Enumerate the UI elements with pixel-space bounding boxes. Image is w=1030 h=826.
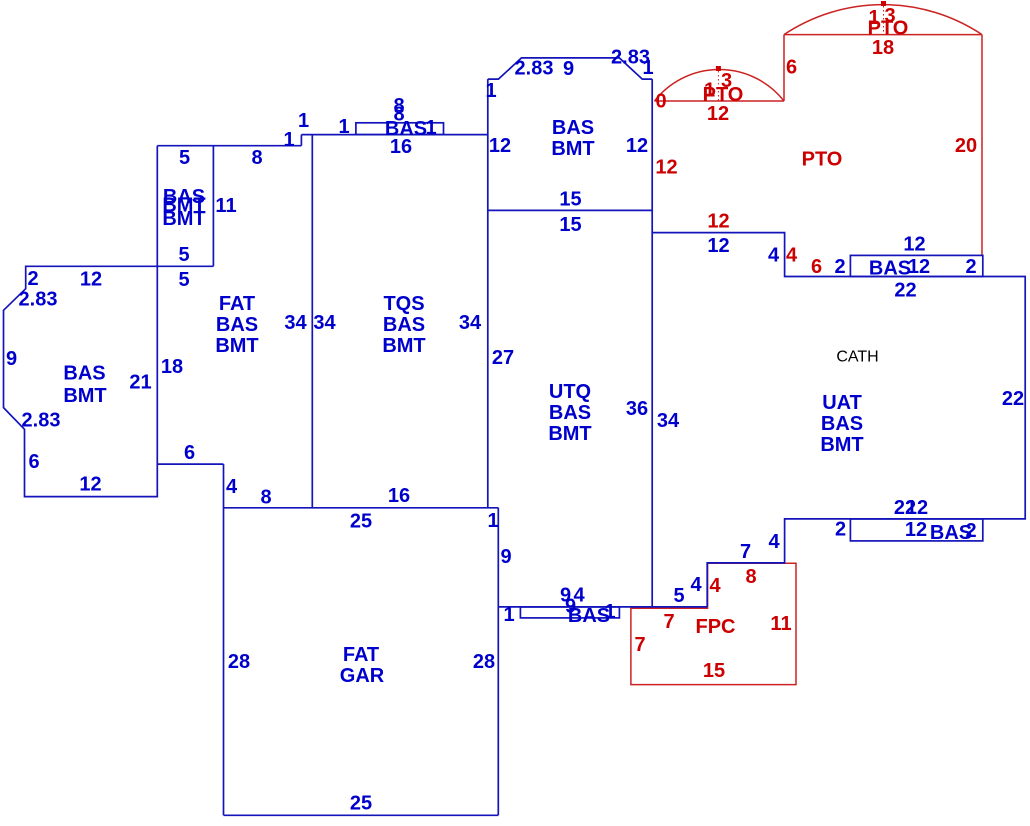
svg-text:2: 2 [835, 519, 846, 541]
svg-text:11: 11 [215, 195, 236, 217]
FAT GAR bottom 25 [224, 814, 499, 816]
svg-text:4: 4 [226, 476, 238, 498]
svg-text:8: 8 [251, 147, 262, 169]
small PTO dotted drop line [717, 71, 719, 101]
svg-text:FAT: FAT [219, 293, 255, 315]
svg-text:5: 5 [179, 147, 190, 169]
svg-text:FAT: FAT [343, 644, 379, 666]
svg-text:2.83: 2.83 [19, 289, 58, 311]
15 line (BASBMT bottom / UTQ top) [488, 209, 652, 211]
svg-text:12: 12 [906, 497, 928, 519]
svg-text:6: 6 [28, 451, 39, 473]
svg-text:9: 9 [500, 546, 511, 568]
right upper BAS strip 12x2 [850, 255, 982, 276]
long wall x=652 (BASBMT/UTQ right, UAT left) [651, 79, 653, 607]
svg-text:CATH: CATH [836, 349, 878, 366]
PTO step wall 6 [783, 35, 785, 101]
svg-text:20: 20 [955, 135, 977, 157]
svg-text:BMT: BMT [382, 335, 425, 357]
svg-text:12: 12 [707, 103, 729, 125]
svg-text:12: 12 [908, 256, 930, 278]
svg-text:15: 15 [703, 660, 725, 682]
svg-text:4: 4 [768, 245, 780, 267]
big PTO peak marker [881, 1, 886, 6]
long wall x=487.8 (TQS right / BASBMT left) [487, 79, 489, 508]
svg-text:1: 1 [283, 129, 294, 151]
svg-text:BAS: BAS [216, 314, 258, 336]
svg-text:FPC: FPC [696, 616, 736, 638]
UAT outline top/right/bottom [652, 233, 1025, 607]
svg-text:2: 2 [27, 268, 38, 290]
small rect left wall / shared vertical [156, 146, 158, 267]
svg-text:BMT: BMT [551, 138, 594, 160]
svg-text:1: 1 [425, 117, 436, 139]
svg-text:12: 12 [655, 157, 677, 179]
svg-text:34: 34 [313, 312, 336, 334]
svg-text:34: 34 [459, 312, 482, 334]
svg-text:TQS: TQS [383, 293, 424, 315]
svg-text:0: 0 [655, 91, 666, 113]
svg-text:1: 1 [485, 80, 496, 102]
svg-text:12: 12 [79, 474, 101, 496]
svg-text:16: 16 [390, 136, 412, 158]
big PTO arc [784, 5, 982, 35]
svg-text:25: 25 [350, 793, 372, 815]
small PTO peak marker [716, 66, 721, 71]
svg-text:15: 15 [559, 214, 581, 236]
svg-text:36: 36 [626, 398, 648, 420]
svg-text:8: 8 [745, 566, 756, 588]
top BAS strip 8x1 [356, 123, 444, 135]
small rect bottom (octagon top extension) [157, 265, 213, 267]
svg-text:BMT: BMT [548, 423, 591, 445]
svg-text:BMT: BMT [63, 385, 106, 407]
svg-text:GAR: GAR [340, 665, 385, 687]
svg-text:2: 2 [965, 520, 976, 542]
svg-text:12: 12 [905, 519, 927, 541]
bottom BAS strip 9x1 [520, 607, 619, 618]
svg-text:16: 16 [388, 485, 410, 507]
big PTO dotted drop line [883, 6, 885, 35]
right lower BAS strip 12x2 [850, 519, 982, 541]
left wall x=223.5 (4 + FAT GAR left 28) [223, 464, 225, 815]
svg-text:BMT: BMT [215, 335, 258, 357]
svg-text:28: 28 [473, 651, 495, 673]
svg-text:2: 2 [834, 256, 845, 278]
left BAS BMT octagon [4, 266, 158, 496]
TQS left wall (34) [311, 135, 313, 508]
svg-text:8: 8 [260, 487, 271, 509]
svg-text:11: 11 [770, 613, 791, 635]
svg-text:12: 12 [707, 211, 729, 233]
svg-text:12: 12 [489, 135, 511, 157]
svg-text:6: 6 [786, 57, 797, 79]
svg-text:12: 12 [626, 135, 648, 157]
svg-text:4: 4 [709, 575, 721, 597]
svg-text:7: 7 [634, 634, 645, 656]
svg-text:PTO: PTO [802, 149, 843, 171]
FAT GAR top edge 25 [224, 507, 499, 509]
svg-text:12: 12 [903, 234, 925, 256]
svg-text:27: 27 [492, 347, 514, 369]
svg-text:12: 12 [80, 269, 102, 291]
svg-text:7: 7 [740, 541, 751, 563]
svg-text:2: 2 [965, 256, 976, 278]
svg-text:4: 4 [786, 245, 798, 267]
svg-text:7: 7 [663, 611, 674, 633]
svg-text:6: 6 [184, 442, 195, 464]
top BAS BMT chamfered top [488, 58, 652, 79]
svg-text:BAS: BAS [552, 117, 594, 139]
svg-text:6: 6 [811, 256, 822, 278]
svg-text:1: 1 [604, 601, 615, 623]
svg-text:34: 34 [657, 410, 680, 432]
FAT top edge at y=145.7 [157, 145, 301, 147]
svg-text:21: 21 [129, 372, 151, 394]
svg-text:2.83: 2.83 [22, 410, 61, 432]
small rect right wall (11) [212, 146, 214, 267]
svg-text:28: 28 [228, 651, 250, 673]
1ft step up [300, 135, 302, 146]
svg-text:BAS: BAS [63, 363, 105, 385]
svg-text:18: 18 [872, 37, 894, 59]
TQS top edge y=134.6 [301, 134, 487, 136]
svg-text:BMT: BMT [162, 208, 205, 230]
PTO right wall 20 [981, 35, 983, 256]
svg-text:5: 5 [178, 244, 189, 266]
patio FPC outline (red) [631, 563, 796, 684]
svg-text:BAS: BAS [549, 402, 591, 424]
svg-text:22: 22 [1002, 388, 1024, 410]
svg-text:1: 1 [298, 110, 309, 132]
svg-text:BAS: BAS [869, 258, 911, 280]
svg-text:2.83: 2.83 [515, 58, 554, 80]
svg-text:5: 5 [178, 269, 189, 291]
svg-text:1: 1 [503, 604, 514, 626]
svg-text:4: 4 [690, 574, 702, 596]
svg-text:BMT: BMT [820, 434, 863, 456]
big PTO chord [784, 34, 982, 36]
svg-text:UAT: UAT [822, 392, 862, 414]
svg-text:5: 5 [673, 585, 684, 607]
svg-text:25: 25 [350, 511, 372, 533]
svg-text:22: 22 [894, 280, 916, 302]
small PTO arc baseline [655, 100, 785, 102]
svg-text:4: 4 [768, 531, 780, 553]
svg-text:BAS: BAS [383, 314, 425, 336]
svg-text:1: 1 [642, 57, 653, 79]
UTQ bottom / UAT step line y=606.9 [498, 606, 707, 608]
FAT GAR right wall [497, 508, 499, 816]
svg-text:9: 9 [563, 58, 574, 80]
svg-text:1: 1 [487, 510, 498, 532]
svg-text:UTQ: UTQ [549, 381, 591, 403]
FAT bottom step 6 [157, 463, 223, 465]
svg-text:BAS: BAS [821, 413, 863, 435]
small PTO arc [655, 70, 785, 101]
svg-text:1: 1 [338, 116, 349, 138]
svg-text:9: 9 [6, 348, 17, 370]
svg-text:12: 12 [707, 235, 729, 257]
svg-text:15: 15 [559, 189, 581, 211]
svg-text:18: 18 [161, 356, 183, 378]
svg-text:34: 34 [284, 312, 307, 334]
